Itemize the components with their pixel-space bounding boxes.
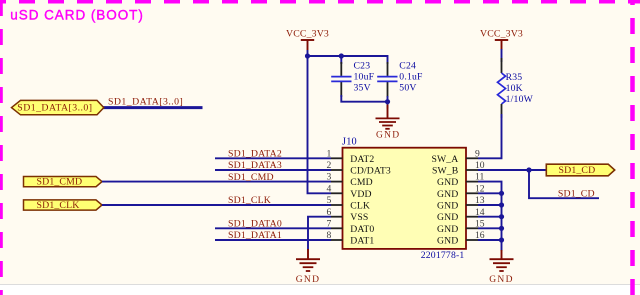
svg-text:VSS: VSS <box>350 212 368 223</box>
ground below pin rail <box>489 250 513 285</box>
svg-text:SD1_CLK: SD1_CLK <box>37 200 80 211</box>
svg-text:C24: C24 <box>399 61 416 72</box>
svg-text:R35: R35 <box>506 72 523 83</box>
pin 1 DAT2 <box>331 157 343 159</box>
svg-text:VDD: VDD <box>350 189 371 200</box>
svg-text:2201778-1: 2201778-1 <box>421 250 465 261</box>
svg-text:SD1_CD: SD1_CD <box>558 188 595 199</box>
svg-text:GND: GND <box>437 189 458 200</box>
ground below VSS <box>296 249 320 285</box>
svg-text:GND: GND <box>489 275 513 285</box>
wire pin 14 stub <box>478 216 502 218</box>
svg-text:3: 3 <box>327 172 332 183</box>
svg-text:SD1_CMD: SD1_CMD <box>228 172 274 183</box>
pin 3 CMD <box>331 181 343 183</box>
pin 9 SW_A <box>466 157 478 159</box>
junction at GND tap <box>385 99 390 104</box>
svg-text:SD1_DATA2: SD1_DATA2 <box>228 149 282 160</box>
ground under capacitors <box>376 105 401 141</box>
bus SD1_DATA[3..0] <box>103 106 203 109</box>
power VCC_3V3 left <box>286 29 329 50</box>
wire pin 13 stub <box>478 204 502 206</box>
svg-text:GND: GND <box>437 201 458 212</box>
wire pin 6 VSS to ground <box>308 217 331 250</box>
resistor R35 <box>498 58 534 118</box>
svg-text:2: 2 <box>327 160 332 171</box>
wire VCC to R35 <box>501 49 503 62</box>
svg-text:SD1_DATA[3..0]: SD1_DATA[3..0] <box>108 96 183 107</box>
svg-text:50V: 50V <box>399 83 416 94</box>
svg-text:GND: GND <box>296 275 320 285</box>
svg-text:9: 9 <box>475 148 480 159</box>
wire SD1_DATA2 (pin 1) <box>215 157 331 159</box>
wire VDD rail: VCC down to pin 4 <box>308 50 332 193</box>
wire C23 top lead <box>340 56 342 64</box>
svg-text:DAT0: DAT0 <box>350 224 374 235</box>
pin 14 GND <box>466 216 478 218</box>
svg-text:GND: GND <box>437 224 458 235</box>
svg-text:CLK: CLK <box>350 201 370 212</box>
power VCC_3V3 right <box>480 29 523 50</box>
svg-text:10K: 10K <box>506 83 523 94</box>
svg-text:GND: GND <box>437 177 458 188</box>
svg-text:VCC_3V3: VCC_3V3 <box>480 29 523 40</box>
svg-text:5: 5 <box>327 195 332 206</box>
pin 10 SW_B <box>466 169 478 171</box>
pin 8 DAT1 <box>331 239 343 241</box>
junction pin 15 <box>499 226 504 231</box>
svg-text:GND: GND <box>437 212 458 223</box>
svg-text:CMD: CMD <box>350 177 372 188</box>
svg-text:J10: J10 <box>342 137 357 148</box>
svg-text:SD1_CD: SD1_CD <box>559 165 596 176</box>
pin 15 GND <box>466 227 478 229</box>
canvas bottom edge strip <box>0 285 640 295</box>
svg-text:10uF: 10uF <box>354 72 375 83</box>
pin 2 CD/DAT3 <box>331 169 343 171</box>
wire SD1_DATA1 (pin 8) <box>215 239 331 241</box>
junction pin 12 <box>499 191 504 196</box>
svg-text:4: 4 <box>327 183 332 194</box>
junction pin 16 <box>499 237 504 242</box>
svg-text:SD1_DATA1: SD1_DATA1 <box>228 230 282 241</box>
pin 7 DAT0 <box>331 227 343 229</box>
svg-text:1: 1 <box>327 148 332 159</box>
port SD1_CLK <box>24 200 103 210</box>
pin 11 GND <box>466 181 478 183</box>
dashed sheet border right <box>630 0 635 295</box>
svg-text:8: 8 <box>327 230 332 241</box>
wire SD1_CD stub <box>529 170 599 198</box>
svg-text:GND: GND <box>376 131 400 141</box>
capacitor C24 <box>377 61 423 102</box>
svg-text:CD/DAT3: CD/DAT3 <box>350 166 391 177</box>
svg-text:VCC_3V3: VCC_3V3 <box>286 29 329 40</box>
wire pin 11 to ground rail <box>478 182 502 251</box>
svg-text:7: 7 <box>327 218 332 229</box>
wire SD1_CLK to pin 5 <box>102 204 331 206</box>
wire R35 to pin 9 <box>478 114 502 158</box>
junction at VCC tap <box>305 53 310 58</box>
svg-text:SW_B: SW_B <box>432 166 458 177</box>
pin 6 VSS <box>331 216 343 218</box>
pin 4 VDD <box>331 192 343 194</box>
svg-text:0.1uF: 0.1uF <box>399 72 423 83</box>
svg-text:1/10W: 1/10W <box>506 94 534 105</box>
dashed sheet border left <box>0 0 3 295</box>
wire pin 15 stub <box>478 227 502 229</box>
junction at C23 top <box>339 53 344 58</box>
port SD1_CMD <box>24 177 103 187</box>
svg-text:SD1_DATA[3..0]: SD1_DATA[3..0] <box>17 103 92 114</box>
wire caps bottom rail <box>341 95 387 109</box>
junction pin 14 <box>499 214 504 219</box>
pin 12 GND <box>466 192 478 194</box>
dashed sheet border top <box>0 0 640 4</box>
connector J10 <box>327 137 485 261</box>
svg-text:GND: GND <box>437 236 458 247</box>
pin 5 CLK <box>331 204 343 206</box>
pin 13 GND <box>466 204 478 206</box>
svg-text:SD1_CLK: SD1_CLK <box>228 195 271 206</box>
wire top rail to C24 <box>308 56 388 64</box>
svg-text:SD1_DATA0: SD1_DATA0 <box>228 219 282 230</box>
svg-text:DAT1: DAT1 <box>350 236 374 247</box>
wire SD1_DATA3 (pin 2) <box>215 169 331 171</box>
junction pin 13 <box>499 202 504 207</box>
port SD1_CD <box>546 164 614 176</box>
svg-text:SD1_CMD: SD1_CMD <box>37 177 83 188</box>
svg-text:SW_A: SW_A <box>432 154 459 165</box>
junction at SD1_CD tap <box>526 167 531 172</box>
svg-text:DAT2: DAT2 <box>350 154 374 165</box>
pin 16 GND <box>466 239 478 241</box>
port SD1_DATA[3..0] <box>12 100 104 114</box>
svg-text:uSD CARD (BOOT): uSD CARD (BOOT) <box>10 8 144 23</box>
wire pin 16 stub <box>478 239 502 241</box>
wire SD1_CMD to pin 3 <box>102 181 331 183</box>
wire pin 10 SW_B to SD1_CD port <box>478 169 546 171</box>
svg-text:SD1_DATA3: SD1_DATA3 <box>228 160 282 171</box>
svg-text:35V: 35V <box>354 83 371 94</box>
capacitor C23 <box>331 61 374 97</box>
wire pin 12 stub <box>478 192 502 194</box>
wire SD1_DATA0 (pin 7) <box>215 227 331 229</box>
svg-text:C23: C23 <box>354 61 371 72</box>
